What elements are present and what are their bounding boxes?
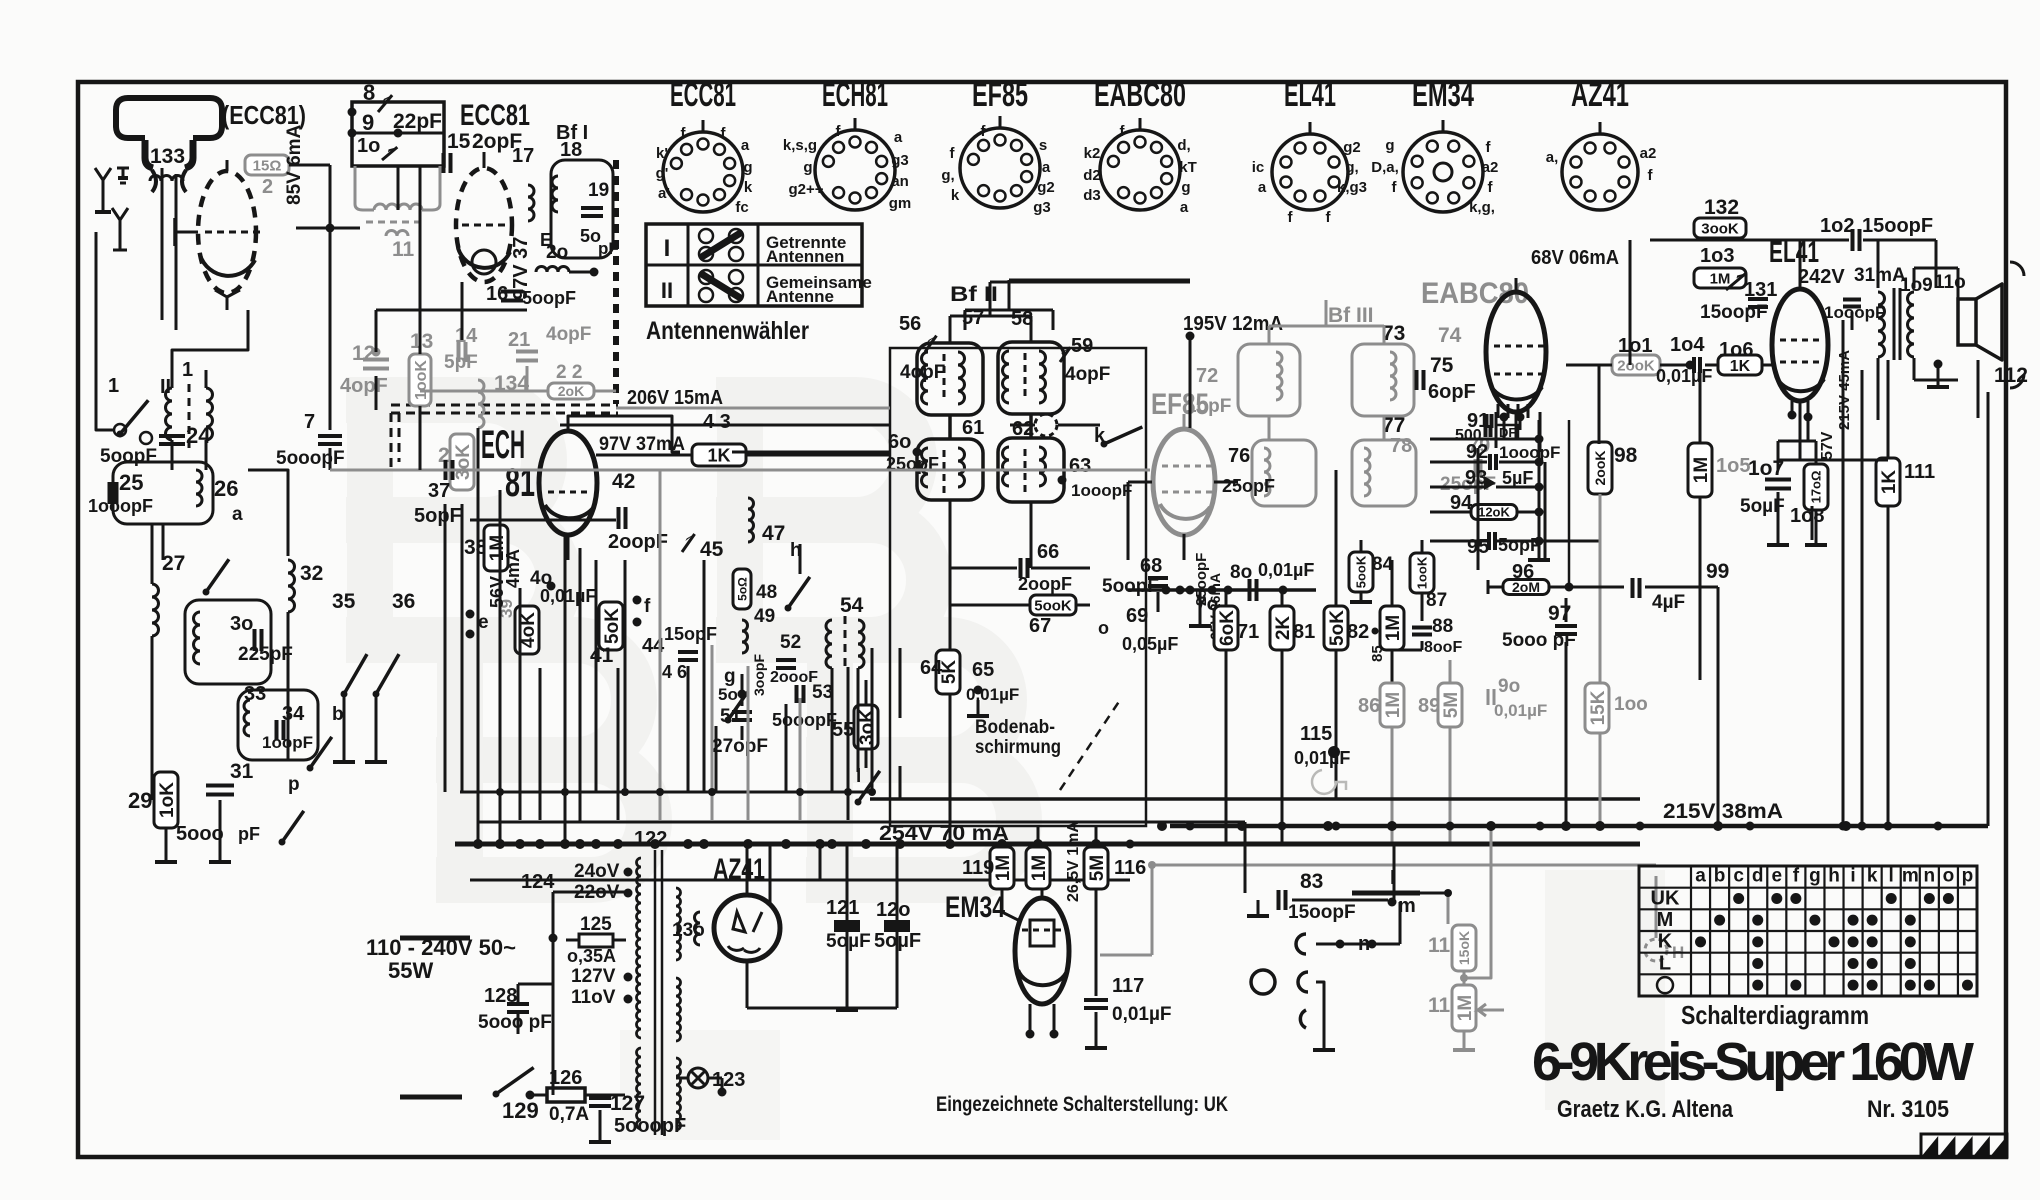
svg-text:1o5: 1o5 [1716, 455, 1750, 477]
svg-text:g: g [1809, 866, 1821, 887]
svg-text:85: 85 [1369, 645, 1386, 662]
svg-text:g3: g3 [1033, 199, 1051, 216]
svg-text:71: 71 [1237, 621, 1259, 643]
svg-text:121: 121 [826, 897, 859, 919]
svg-text:19: 19 [588, 180, 609, 201]
svg-text:15: 15 [447, 130, 471, 153]
svg-text:b: b [332, 704, 344, 725]
svg-text:l: l [1390, 868, 1395, 889]
svg-text:9o: 9o [1498, 676, 1520, 697]
svg-text:2oK: 2oK [558, 383, 584, 399]
svg-text:8: 8 [363, 80, 375, 105]
svg-text:1: 1 [182, 359, 193, 381]
svg-text:i: i [1850, 866, 1855, 887]
svg-text:e: e [478, 612, 489, 633]
svg-text:81: 81 [1293, 621, 1315, 643]
svg-text:3oopF: 3oopF [751, 654, 767, 696]
svg-text:a,: a, [1546, 149, 1559, 166]
svg-text:k,g3: k,g3 [1337, 179, 1367, 196]
svg-text:127V: 127V [571, 966, 616, 987]
svg-text:15opF: 15opF [664, 624, 717, 644]
svg-text:73: 73 [1382, 322, 1405, 345]
svg-text:1ooK: 1ooK [1415, 556, 1430, 589]
svg-text:53: 53 [812, 682, 833, 703]
svg-text:2K: 2K [1273, 616, 1294, 641]
svg-text:UK: UK [1651, 887, 1680, 909]
svg-text:b: b [1714, 866, 1726, 887]
svg-text:5oopF: 5oopF [100, 446, 157, 467]
svg-text:2oooF: 2oooF [770, 669, 818, 686]
svg-text:6-9Kreis-Super 160W: 6-9Kreis-Super 160W [1532, 1032, 1974, 1092]
svg-text:3ooK: 3ooK [1701, 220, 1739, 237]
svg-text:6oK: 6oK [1217, 610, 1238, 646]
svg-text:5oopF: 5oopF [522, 288, 576, 308]
svg-text:27: 27 [162, 552, 185, 575]
svg-text:15Ω: 15Ω [253, 157, 282, 174]
svg-text:56V: 56V [487, 576, 507, 608]
svg-text:36: 36 [392, 590, 415, 613]
svg-text:15oopF: 15oopF [1862, 215, 1933, 237]
svg-text:EL41: EL41 [1769, 236, 1819, 269]
svg-text:78: 78 [1390, 435, 1412, 457]
svg-text:h: h [1828, 866, 1840, 887]
svg-text:5oµF: 5oµF [826, 931, 871, 952]
svg-text:15oK: 15oK [1456, 931, 1472, 965]
svg-text:g: g [724, 666, 736, 687]
svg-text:1oopF: 1oopF [262, 733, 313, 752]
svg-text:88: 88 [1432, 616, 1453, 637]
svg-text:77: 77 [1382, 414, 1405, 437]
svg-text:18: 18 [560, 139, 582, 161]
svg-text:k: k [744, 179, 753, 196]
svg-text:1: 1 [108, 375, 119, 397]
svg-text:4opF: 4opF [1065, 364, 1110, 385]
svg-text:Eingezeichnete Schalterstellu: Eingezeichnete Schalterstellung: UK [936, 1093, 1228, 1116]
svg-text:76: 76 [1228, 445, 1250, 467]
svg-text:a: a [1258, 179, 1267, 196]
svg-text:8o: 8o [1230, 562, 1252, 583]
svg-text:0,01µF: 0,01µF [1112, 1004, 1172, 1025]
svg-text:25: 25 [119, 470, 143, 495]
svg-text:72: 72 [1196, 365, 1218, 387]
svg-text:55W: 55W [388, 958, 433, 983]
svg-text:d3: d3 [1083, 187, 1101, 204]
svg-text:1M: 1M [1383, 615, 1404, 641]
svg-text:26: 26 [214, 476, 238, 501]
svg-text:17oΩ: 17oΩ [1809, 471, 1824, 504]
svg-text:M: M [1657, 909, 1674, 931]
svg-text:52: 52 [780, 632, 801, 653]
svg-text:EM34: EM34 [1412, 76, 1474, 114]
svg-text:1M: 1M [1383, 692, 1404, 718]
svg-text:k,s,g: k,s,g [783, 137, 817, 154]
svg-text:54: 54 [840, 594, 864, 617]
svg-text:gm: gm [889, 195, 912, 212]
svg-text:12oK: 12oK [1478, 505, 1510, 520]
svg-text:84: 84 [1372, 554, 1394, 575]
svg-text:85V 6mA: 85V 6mA [284, 124, 305, 205]
svg-text:5oµF: 5oµF [874, 930, 921, 952]
svg-text:5ooo pF: 5ooo pF [478, 1012, 552, 1033]
svg-text:99: 99 [1706, 560, 1729, 583]
svg-text:254V 70 mA: 254V 70 mA [879, 822, 1009, 845]
svg-text:122: 122 [634, 828, 667, 850]
svg-text:51: 51 [720, 706, 742, 727]
svg-text:ECC81: ECC81 [460, 99, 530, 132]
svg-text:5ooopF: 5ooopF [276, 448, 345, 469]
svg-text:D,a,: D,a, [1371, 159, 1399, 176]
svg-text:1opF: 1opF [1186, 396, 1231, 417]
svg-text:2o: 2o [546, 242, 568, 263]
svg-text:ECH81: ECH81 [822, 76, 888, 114]
svg-text:15oopF: 15oopF [1288, 902, 1356, 923]
svg-text:4opF: 4opF [340, 375, 388, 397]
svg-text:59: 59 [1071, 335, 1093, 357]
svg-text:68: 68 [1140, 555, 1162, 577]
svg-text:1M: 1M [1029, 855, 1050, 881]
svg-text:1o9: 1o9 [1900, 275, 1933, 296]
svg-text:an: an [891, 173, 909, 190]
svg-text:4 6: 4 6 [662, 662, 687, 682]
svg-text:11o: 11o [1934, 272, 1966, 293]
svg-text:1K: 1K [707, 445, 730, 465]
svg-text:5µF: 5µF [1502, 468, 1533, 488]
svg-text:e: e [1772, 866, 1783, 887]
svg-text:1o2: 1o2 [1820, 215, 1854, 237]
svg-text:g2: g2 [1343, 139, 1361, 156]
svg-text:EF85: EF85 [972, 76, 1028, 114]
svg-text:II: II [160, 376, 171, 398]
svg-text:4µF: 4µF [1652, 592, 1685, 613]
svg-text:1M: 1M [1455, 995, 1476, 1021]
svg-text:5pF: 5pF [444, 352, 478, 373]
svg-text:1ooopF: 1ooopF [1499, 443, 1560, 462]
svg-text:69: 69 [1126, 605, 1148, 627]
svg-text:0,01µF: 0,01µF [966, 685, 1019, 704]
svg-text:d2: d2 [1083, 167, 1101, 184]
svg-text:g: g [1181, 179, 1190, 196]
svg-text:Antennenwähler: Antennenwähler [646, 317, 809, 345]
svg-text:82: 82 [1347, 621, 1369, 643]
svg-text:4 3: 4 3 [703, 411, 731, 433]
svg-text:6opF: 6opF [1428, 381, 1476, 403]
svg-text:p: p [288, 774, 300, 795]
svg-text:5o: 5o [718, 685, 738, 704]
svg-text:44: 44 [642, 635, 665, 657]
svg-text:17: 17 [512, 145, 534, 167]
svg-text:Antennen: Antennen [766, 247, 844, 266]
svg-text:117: 117 [1112, 975, 1144, 997]
svg-text:5ooopF: 5ooopF [614, 1115, 686, 1137]
svg-text:132: 132 [1704, 196, 1739, 219]
svg-text:pF: pF [238, 824, 260, 844]
svg-text:l: l [1889, 866, 1894, 887]
svg-text:5ooopF: 5ooopF [772, 710, 837, 730]
svg-text:ECC81: ECC81 [670, 76, 736, 114]
svg-text:5ooK: 5ooK [1354, 555, 1369, 588]
svg-text:65: 65 [972, 659, 994, 681]
svg-text:g,: g, [803, 159, 816, 176]
svg-text:0,01µF: 0,01µF [1294, 748, 1350, 768]
svg-text:2: 2 [262, 176, 273, 198]
svg-text:61: 61 [962, 417, 984, 439]
svg-text:0,01µF: 0,01µF [1494, 701, 1547, 720]
svg-text:2ooK: 2ooK [1617, 357, 1655, 374]
svg-text:74: 74 [1438, 324, 1462, 347]
svg-text:1M: 1M [1710, 270, 1731, 287]
svg-text:225pF: 225pF [238, 644, 293, 665]
svg-text:a: a [1042, 159, 1051, 176]
svg-text:64: 64 [920, 657, 943, 679]
svg-text:11: 11 [392, 238, 415, 261]
svg-text:24oV: 24oV [574, 861, 620, 882]
svg-text:2oM: 2oM [1512, 579, 1540, 595]
svg-text:26,5V 1mA: 26,5V 1mA [1065, 821, 1082, 902]
svg-text:I: I [664, 235, 671, 262]
svg-text:1K: 1K [1730, 358, 1751, 375]
svg-text:111: 111 [1904, 461, 1935, 483]
svg-text:31: 31 [230, 760, 254, 783]
svg-text:5oopF: 5oopF [1102, 576, 1159, 597]
svg-text:m: m [1902, 866, 1919, 887]
svg-text:a2: a2 [1482, 159, 1499, 176]
svg-text:g3: g3 [891, 152, 909, 169]
svg-text:125: 125 [580, 914, 612, 935]
svg-text:31mA: 31mA [1854, 265, 1906, 286]
svg-text:13: 13 [410, 330, 433, 353]
svg-text:66: 66 [1037, 541, 1059, 563]
svg-text:133: 133 [150, 145, 185, 168]
svg-text:83: 83 [1300, 870, 1323, 893]
svg-text:7: 7 [304, 411, 315, 433]
svg-text:1o4: 1o4 [1670, 334, 1705, 356]
svg-text:k: k [1867, 866, 1878, 887]
svg-text:EL41: EL41 [1284, 76, 1336, 114]
svg-text:g,: g, [941, 167, 954, 184]
svg-text:4opF: 4opF [900, 362, 945, 383]
svg-text:II: II [661, 278, 673, 303]
svg-text:5opF: 5opF [414, 505, 462, 527]
svg-text:1M: 1M [993, 855, 1014, 881]
svg-text:68V 06mA: 68V 06mA [1531, 247, 1619, 269]
svg-text:12o: 12o [876, 899, 910, 921]
svg-text:0,01µF: 0,01µF [1258, 560, 1314, 580]
svg-text:27opF: 27opF [712, 736, 768, 757]
svg-text:6o: 6o [888, 431, 911, 453]
svg-text:0,05µF: 0,05µF [1122, 634, 1178, 654]
svg-text:5oK: 5oK [1327, 610, 1348, 646]
svg-text:48: 48 [756, 582, 777, 603]
svg-text:a': a' [658, 185, 670, 202]
svg-text:g,: g, [1345, 159, 1358, 176]
svg-text:Antenne: Antenne [766, 287, 834, 306]
svg-text:47: 47 [762, 522, 785, 545]
svg-text:29: 29 [128, 788, 152, 813]
svg-text:n: n [1924, 866, 1936, 887]
svg-text:206V 15mA: 206V 15mA [627, 387, 723, 409]
svg-text:5M: 5M [1441, 692, 1462, 718]
svg-text:5ooo: 5ooo [176, 823, 224, 845]
svg-text:67: 67 [1029, 615, 1051, 637]
svg-text:AZ41: AZ41 [1571, 76, 1629, 114]
svg-text:5M: 5M [1087, 855, 1108, 881]
svg-text:kT: kT [1179, 159, 1197, 176]
svg-text:1M: 1M [1691, 457, 1712, 483]
svg-text:119: 119 [962, 857, 994, 879]
svg-text:1o3: 1o3 [1700, 245, 1734, 267]
svg-text:55: 55 [832, 719, 854, 741]
svg-text:1K: 1K [1879, 470, 1900, 495]
svg-text:11oV: 11oV [571, 987, 616, 1008]
svg-text:32: 32 [300, 562, 323, 585]
svg-text:g': g' [656, 165, 669, 182]
svg-text:f: f [1793, 866, 1800, 887]
svg-text:a: a [1180, 199, 1189, 216]
svg-text:87: 87 [1426, 590, 1447, 611]
svg-text:2ooK: 2ooK [1592, 451, 1608, 486]
svg-text:L: L [1659, 952, 1671, 974]
svg-text:81: 81 [505, 461, 535, 505]
svg-text:215V 38mA: 215V 38mA [1663, 800, 1783, 823]
svg-text:4opF: 4opF [546, 324, 591, 345]
svg-text:k2: k2 [1084, 145, 1101, 162]
svg-text:63: 63 [1069, 455, 1091, 477]
svg-text:2 2: 2 2 [556, 362, 582, 383]
svg-text:k,g,: k,g, [1469, 199, 1495, 216]
svg-text:schirmung: schirmung [975, 737, 1061, 758]
svg-text:25opF: 25opF [1222, 476, 1275, 496]
svg-text:d: d [1752, 866, 1764, 887]
svg-text:Nr. 3105: Nr. 3105 [1867, 1096, 1949, 1123]
svg-text:115: 115 [1300, 723, 1332, 745]
svg-text:116: 116 [1114, 857, 1146, 879]
svg-text:K: K [1658, 931, 1673, 953]
svg-text:75: 75 [1430, 354, 1454, 377]
svg-text:21: 21 [508, 329, 530, 351]
svg-text:3oK: 3oK [453, 444, 474, 480]
svg-text:89: 89 [1418, 695, 1440, 717]
svg-text:42: 42 [612, 470, 635, 493]
svg-text:3o: 3o [230, 613, 253, 635]
svg-text:1o: 1o [357, 135, 380, 157]
svg-text:1ooK: 1ooK [413, 360, 430, 400]
svg-text:Graetz K.G. Altena: Graetz K.G. Altena [1557, 1096, 1734, 1123]
svg-text:Bf III: Bf III [1328, 304, 1374, 327]
svg-text:5oK: 5oK [602, 608, 623, 644]
svg-text:g2: g2 [1037, 179, 1055, 196]
svg-text:129: 129 [502, 1098, 539, 1123]
svg-text:0,01µF: 0,01µF [1656, 366, 1712, 386]
svg-text:AZ41: AZ41 [713, 853, 765, 886]
svg-text:86: 86 [1358, 695, 1380, 717]
svg-text:41: 41 [590, 644, 614, 667]
svg-text:fc: fc [735, 199, 748, 216]
svg-text:57V: 57V [1819, 431, 1836, 460]
svg-text:f: f [644, 596, 651, 617]
svg-text:5opF: 5opF [1498, 535, 1541, 555]
svg-text:2oopF: 2oopF [1018, 574, 1072, 594]
svg-text:98: 98 [1614, 444, 1638, 467]
svg-text:24: 24 [186, 423, 211, 448]
svg-text:c: c [1733, 866, 1744, 887]
svg-text:a: a [1695, 866, 1706, 887]
svg-text:a: a [232, 504, 243, 525]
svg-text:k: k [951, 187, 960, 204]
svg-text:Schalterdiagramm: Schalterdiagramm [1681, 1000, 1869, 1030]
svg-text:242V: 242V [1798, 266, 1845, 288]
svg-text:123: 123 [712, 1069, 745, 1091]
svg-text:49: 49 [754, 606, 775, 627]
svg-text:d,: d, [1177, 137, 1190, 154]
svg-text:5ooK: 5ooK [1034, 597, 1072, 614]
svg-text:1ooopF: 1ooopF [1071, 481, 1132, 500]
svg-text:124: 124 [521, 871, 555, 893]
svg-text:g: g [1385, 137, 1394, 154]
svg-text:8ooF: 8ooF [1424, 639, 1462, 656]
svg-text:1oK: 1oK [157, 782, 178, 818]
svg-text:Bodenab-: Bodenab- [975, 717, 1055, 738]
svg-text:15K: 15K [1588, 690, 1609, 725]
svg-text:22oV: 22oV [574, 882, 620, 903]
svg-text:0,7A: 0,7A [549, 1104, 589, 1125]
svg-text:g2++: g2++ [788, 181, 823, 198]
svg-text:s: s [1039, 137, 1047, 154]
svg-text:97: 97 [1548, 602, 1571, 625]
svg-text:g: g [743, 159, 752, 176]
svg-text:5oΩ: 5oΩ [735, 577, 749, 601]
svg-text:112: 112 [1994, 364, 2028, 387]
svg-text:k': k' [656, 145, 668, 162]
svg-text:35: 35 [332, 590, 356, 613]
svg-text:1ooopF: 1ooopF [88, 496, 153, 516]
svg-text:1oo: 1oo [1614, 694, 1648, 715]
svg-text:a: a [741, 137, 750, 154]
svg-text:45: 45 [700, 538, 724, 561]
svg-text:3oK: 3oK [857, 709, 878, 745]
svg-text:37: 37 [428, 480, 450, 502]
svg-text:56: 56 [899, 313, 921, 335]
svg-text:a2: a2 [1640, 145, 1657, 162]
svg-text:9: 9 [362, 110, 374, 135]
svg-text:a: a [894, 129, 903, 146]
svg-text:o: o [1943, 866, 1955, 887]
svg-text:p: p [1962, 866, 1974, 887]
svg-text:EM34: EM34 [945, 891, 1005, 924]
svg-text:EABC80: EABC80 [1094, 76, 1186, 114]
svg-text:o: o [1098, 618, 1109, 638]
svg-text:o,35A: o,35A [567, 946, 616, 966]
svg-text:ic: ic [1252, 159, 1265, 176]
